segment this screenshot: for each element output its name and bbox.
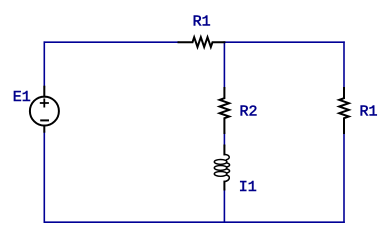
inductor I1 top lead bbox=[223, 146, 225, 155]
svg-text:E1: E1 bbox=[13, 89, 31, 106]
wire top-right horizontal (node between R1 and right branch) bbox=[224, 41, 344, 43]
inductor I1 exit hook bbox=[225, 175, 230, 182]
wire middle vertical lower (I1 to bottom rail) bbox=[223, 190, 225, 223]
svg-text:R1: R1 bbox=[360, 104, 378, 121]
svg-text:I1: I1 bbox=[239, 179, 257, 196]
inductor I1 loop 2 bbox=[214, 166, 227, 171]
svg-text:R1: R1 bbox=[193, 14, 211, 31]
resistor R1 (right branch, vertical zigzag) bbox=[339, 88, 349, 133]
voltage source E1 plus sign bbox=[41, 99, 48, 106]
voltage source E1 minus sign bbox=[41, 119, 48, 121]
voltage source E1 top lead bbox=[43, 87, 45, 97]
resistor R1 (top, horizontal zigzag) bbox=[179, 37, 225, 47]
wire bottom horizontal rail bbox=[44, 221, 344, 223]
wire right vertical lower (right R1 to bottom rail) bbox=[343, 133, 345, 222]
wire middle vertical upper (top node to R2) bbox=[223, 42, 225, 88]
inductor I1 bridge 1 bbox=[227, 163, 230, 167]
wire middle vertical between R2 and I1 bbox=[223, 133, 225, 146]
resistor R2 (middle branch, vertical zigzag) bbox=[220, 88, 230, 133]
inductor I1 loop 1 bbox=[214, 160, 227, 165]
wire left vertical lower (E1 bottom to bottom rail) bbox=[43, 132, 45, 223]
wire left vertical upper (E1 top lead net) bbox=[43, 42, 45, 86]
svg-text:R2: R2 bbox=[240, 104, 258, 121]
voltage source E1 circle bbox=[30, 97, 59, 126]
inductor I1 bridge 2 bbox=[227, 169, 230, 173]
wire right vertical upper (top node to right R1) bbox=[343, 42, 345, 88]
inductor I1 bottom lead bbox=[223, 182, 225, 190]
inductor I1 entry hook bbox=[225, 154, 230, 159]
voltage source E1 bottom lead bbox=[43, 126, 45, 132]
inductor I1 loop 3 bbox=[214, 172, 227, 177]
wire top-left horizontal (node between E1 and R1) bbox=[44, 41, 178, 43]
